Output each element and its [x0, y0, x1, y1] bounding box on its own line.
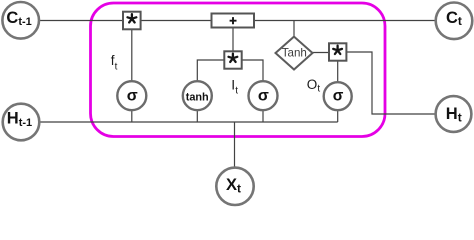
- sigma f circle: [117, 81, 146, 110]
- wire: bottom input bus from H(t-1): [40, 121, 338, 123]
- wire: X(t) up to bus: [234, 122, 236, 168]
- node X(t): [216, 168, 253, 205]
- svg-text:σ: σ: [127, 87, 138, 104]
- svg-text:ft: ft: [111, 53, 118, 72]
- wire: sigma o down to bus end: [337, 110, 339, 122]
- adder (+): [212, 14, 255, 28]
- svg-text:Tanh: Tanh: [282, 47, 307, 60]
- svg-text:It: It: [231, 77, 238, 97]
- wire: adder down to multiplier U2: [232, 28, 234, 52]
- svg-text:tanh: tanh: [186, 91, 209, 103]
- wire: sigma i down to bus: [262, 110, 264, 122]
- wire: multiplier U3 down to sigma o: [337, 61, 339, 82]
- LSTM cell boundary (magenta rounded rect): [91, 3, 386, 137]
- multiplier U1 (forget gate *): [123, 12, 141, 30]
- Tanh diamond: [276, 37, 313, 70]
- wire: tanh circle down to bus: [196, 110, 198, 122]
- svg-text:σ: σ: [258, 87, 269, 104]
- wire: top cell-state line C(t-1) to C(t): [39, 20, 436, 22]
- wire: multiplier U2 right elbow to sigma i: [241, 60, 263, 81]
- tanh circle: [183, 81, 212, 110]
- node C(t-1): [2, 2, 39, 39]
- sigma i circle: [249, 81, 278, 110]
- node C(t): [436, 3, 473, 40]
- wire: multiplier U2 left elbow to tanh circle: [197, 60, 224, 81]
- wire: Tanh diamond to multiplier U3: [312, 52, 329, 54]
- sigma o circle: [324, 82, 352, 110]
- wire: sigma f down to bus: [131, 110, 133, 122]
- wire: junction down to Tanh diamond: [293, 21, 295, 38]
- node H(t): [436, 96, 472, 132]
- svg-text:Ot: Ot: [307, 77, 321, 95]
- multiplier U2 (input gate *): [224, 51, 241, 68]
- wire: multiplier U1 down to sigma f: [131, 30, 133, 82]
- node H(t-1): [3, 104, 40, 141]
- wire: multiplier U3 right to elbow down to H(t): [347, 52, 436, 114]
- svg-text:σ: σ: [333, 88, 344, 105]
- multiplier U3 (output gate *): [329, 43, 346, 60]
